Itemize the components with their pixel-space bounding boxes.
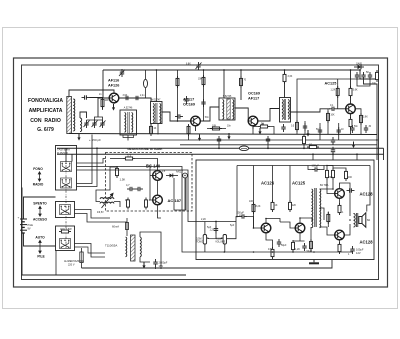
svg-text:CON RADIO: CON RADIO (30, 118, 61, 124)
svg-text:REGOLATORE di TEMP.: REGOLATORE di TEMP. (127, 147, 162, 151)
wire radio 2 (77, 148, 98, 186)
wire agc (297, 79, 360, 112)
resistor R10 3,3 (123, 157, 135, 160)
label values radio (99, 63, 372, 131)
switch S2 (61, 178, 72, 188)
capacitor C27 (281, 124, 285, 132)
svg-text:10K: 10K (331, 115, 336, 117)
tastiera box (56, 146, 77, 191)
junction dots rails (96, 139, 378, 155)
ground Q3 (258, 128, 261, 135)
wire Q7 emitter (266, 233, 273, 248)
svg-text:PILE: PILE (37, 255, 45, 259)
resistor R14 40ohm (59, 230, 71, 233)
ground arrow rail (352, 142, 355, 149)
junction dots rail (156, 69, 361, 71)
electrolytic C4 (144, 70, 148, 98)
resistor R23 (338, 203, 341, 215)
wire motor leads (96, 167, 118, 202)
capacitor C11 (331, 137, 335, 145)
svg-text:4/9,5V: 4/9,5V (97, 212, 104, 214)
capacitor C14 2000uF (153, 259, 157, 267)
svg-text:FONOVALIGIA: FONOVALIGIA (28, 98, 63, 104)
transistor Q7 AC126 (261, 223, 271, 233)
wire R31 (310, 227, 312, 252)
ground Q1 emitter (112, 104, 115, 111)
trimmer CV3 (100, 120, 104, 128)
wire R16 top (272, 166, 274, 203)
wire Q10 out (344, 224, 350, 235)
svg-text:AF116: AF116 (108, 79, 119, 83)
switch S4 (60, 239, 71, 249)
svg-text:3,3K: 3,3K (288, 76, 293, 78)
transistor Q3 OC169/AF117 (248, 116, 258, 126)
wire secondary (140, 232, 161, 269)
svg-text:AC125: AC125 (292, 181, 306, 186)
pot P2 volume (221, 235, 227, 253)
wire Q1 base (98, 98, 109, 117)
wire T6 center tap (320, 208, 325, 220)
switch S3 (60, 205, 71, 215)
amplifier enclosure (196, 160, 374, 260)
resistor R12 (127, 198, 130, 210)
transistor Q8 AC125 (295, 223, 305, 233)
IF transformer T2 (151, 102, 163, 124)
wire drops to amp (312, 154, 314, 160)
wire R30 (296, 112, 298, 135)
svg-text:4,7: 4,7 (126, 183, 130, 187)
diode D2 (166, 174, 178, 178)
wire tuning bus (87, 117, 103, 120)
capacitor C8 (368, 72, 372, 80)
antenna coil L2 (80, 118, 82, 132)
resistor R15 (252, 202, 255, 214)
wire Q10 collector (339, 240, 341, 252)
fuse 60mA (126, 223, 129, 230)
wire mid vertical drops (150, 124, 152, 135)
transistor Q5 BC140 (153, 171, 163, 181)
trimmer on rail 2 (196, 62, 200, 70)
resistor R22 (345, 169, 348, 181)
svg-text:+ 150 pF: + 150 pF (89, 138, 101, 142)
resistor R11 (116, 166, 119, 178)
svg-text:1K: 1K (154, 128, 157, 130)
svg-text:OC169: OC169 (183, 103, 195, 107)
wire Q9 emitter (339, 198, 341, 204)
svg-text:6V: 6V (239, 214, 242, 218)
capacitor C25 coupling (329, 107, 337, 111)
trimmer CV1 (84, 120, 88, 128)
capacitor C21 100uF (350, 246, 354, 254)
wire T6 sec to Q10 (320, 227, 335, 235)
regulator enclosure (dashed) (106, 153, 193, 212)
resistor R26 bias (336, 86, 339, 98)
svg-text:FONO: FONO (33, 167, 43, 171)
lamp LP1 (239, 146, 248, 151)
resistor R35 (176, 76, 179, 88)
capacitor 150pF (82, 95, 90, 99)
resistor R32 Q2 emitter (187, 124, 190, 136)
wire rail 1 (57, 147, 384, 149)
capacitor C18 (277, 239, 281, 247)
capacitor C30 (318, 127, 322, 135)
transistor Q10 AC128 (335, 230, 345, 240)
svg-text:A 52746: A 52746 (124, 107, 133, 110)
svg-text:40Ω 7,5W: 40Ω 7,5W (60, 227, 72, 231)
svg-text:50μF: 50μF (307, 250, 313, 253)
chassis ground amp (309, 260, 319, 265)
svg-text:OC169: OC169 (248, 92, 260, 96)
svg-text:5μF: 5μF (230, 224, 235, 227)
wire Q1 emitter (113, 103, 115, 104)
resistor R2 (150, 124, 153, 136)
svg-text:1K: 1K (275, 204, 278, 207)
wire detector net (360, 70, 377, 79)
trimmer on rail (120, 69, 124, 77)
wire R4 (240, 70, 242, 100)
wire battery top (24, 197, 56, 219)
svg-text:R.05/316: R.05/316 (57, 151, 68, 155)
wire radio pickup (77, 135, 93, 184)
transistor Q1 AF116/AF126 (109, 93, 119, 103)
svg-text:5K: 5K (261, 123, 264, 126)
svg-text:1,2K: 1,2K (331, 90, 336, 92)
transistor Q9 AC128 (335, 189, 345, 199)
wire Q4 emitter (350, 114, 352, 118)
svg-text:+: + (18, 216, 20, 220)
ferrite rod antenna (67, 97, 72, 134)
jack J1 (183, 173, 188, 178)
battery B1 9V (20, 219, 27, 233)
wire Q2 collector to T3 (200, 107, 219, 121)
wire R29 (355, 109, 361, 135)
wire right drop (367, 166, 370, 212)
wire L2 top (80, 112, 87, 118)
schematic outer frame (14, 58, 388, 287)
capacitor C23 (350, 125, 354, 133)
wire radio bottom rail (69, 134, 377, 135)
wire Q9 out (340, 183, 351, 216)
wire cap250 to Q7 base (247, 217, 261, 229)
wire Q3 emitter (252, 126, 254, 129)
svg-text:2,2n: 2,2n (140, 95, 145, 97)
wire R17 C18 bottom (273, 247, 280, 259)
svg-text:5,6K: 5,6K (353, 90, 358, 92)
wire reg top (110, 158, 123, 160)
capacitor C32 (347, 188, 355, 192)
wire top supply rail (103, 69, 360, 71)
svg-text:B2 TRA: B2 TRA (320, 184, 329, 187)
wire Q4 collector (350, 70, 352, 104)
svg-text:TASTIERA: TASTIERA (57, 148, 70, 152)
svg-text:AC128: AC128 (360, 192, 374, 197)
capacitor C22 under rail (331, 147, 335, 155)
resistor R31 (310, 239, 313, 251)
resistor R17 (271, 247, 274, 259)
svg-text:6,8K: 6,8K (186, 64, 191, 66)
wire T6 sec to Q9 (320, 189, 335, 194)
label values reg (97, 171, 183, 215)
wire R26 (337, 79, 339, 109)
arrow spento/acceso (39, 206, 41, 216)
wire antenna top link (69, 90, 114, 97)
wire Q8 emitter (293, 233, 305, 241)
transistor Q6 AC187 (153, 195, 163, 205)
svg-text:12K: 12K (292, 204, 297, 207)
capacitor C9 (217, 136, 221, 144)
resistor R3 (202, 75, 205, 87)
wire power box outline (22, 188, 186, 276)
capacitor C4c on collector (123, 96, 131, 100)
resistor R4 (240, 76, 243, 88)
mains transformer T5 (126, 235, 142, 261)
wire reg to supply (158, 211, 162, 218)
ground T4 (306, 130, 309, 137)
svg-text:3,9K: 3,9K (123, 95, 128, 97)
resistor R36 (327, 212, 330, 224)
svg-text:15V: 15V (159, 264, 164, 268)
resistor R25 on rail (307, 146, 319, 149)
wire amp bottom rail (206, 251, 353, 253)
resistor R27 collector (349, 86, 352, 98)
wire radio bottom rail 2 (150, 139, 377, 141)
wire reg internal 1 (150, 175, 153, 177)
motor M (100, 193, 114, 208)
arrow fono/radio (38, 172, 40, 181)
svg-text:3Ω: 3Ω (309, 144, 312, 147)
speaker SP (359, 213, 371, 227)
wire T4 top (284, 70, 286, 98)
fuse F1 (80, 248, 83, 268)
capacitor C12 (127, 187, 135, 191)
svg-text:8Ω: 8Ω (367, 219, 370, 222)
wire R3 (203, 70, 205, 121)
wire radio bottom rail 3 (180, 144, 377, 146)
wire bottom power rail (82, 260, 333, 268)
wire wiper bus (209, 238, 221, 240)
svg-text:SPENTO: SPENTO (33, 202, 47, 206)
svg-text:5K: 5K (366, 71, 369, 74)
svg-text:AF117: AF117 (248, 97, 259, 101)
switch S1 (61, 162, 72, 172)
capacitor C28 (201, 99, 205, 107)
wire Q1 collector (119, 98, 151, 101)
capacitor C19 (302, 243, 306, 251)
resistor R24 (338, 242, 341, 254)
junction dots amp (236, 165, 351, 229)
resistor R19 (292, 240, 295, 252)
wire Q7 collector (266, 219, 280, 224)
capacitor C17 250uF (239, 214, 247, 218)
capacitor C4d on collector (133, 96, 141, 100)
capacitor C31 (337, 127, 341, 135)
antenna coil L1 (73, 99, 75, 131)
svg-text:1,5K: 1,5K (120, 178, 126, 182)
schematic inner frame (22, 65, 379, 280)
wire amp top rail (237, 165, 370, 167)
capacitor C16 (214, 226, 218, 234)
capacitor C24 (364, 125, 368, 133)
wire battery bottom (24, 233, 56, 246)
capacitor C8b (355, 72, 359, 80)
svg-text:AF126: AF126 (108, 84, 119, 88)
svg-text:BC 140: BC 140 (146, 164, 161, 169)
wire tastiera to rails (65, 148, 67, 161)
wire fono to amp input (77, 170, 197, 222)
svg-text:TONO: TONO (196, 241, 203, 244)
svg-text:220: 220 (329, 176, 334, 179)
svg-text:ACCESO: ACCESO (33, 218, 48, 222)
ground antenna (77, 134, 80, 141)
wire Q2 emitter down (195, 126, 197, 131)
capacitor C7 (361, 72, 365, 80)
IF transformer T4 (280, 98, 291, 123)
junction dots bottom rail (224, 251, 315, 253)
svg-text:RADIO: RADIO (33, 183, 44, 187)
svg-text:AC 187: AC 187 (168, 198, 182, 203)
svg-text:3,3: 3,3 (127, 154, 131, 158)
capacitor C20 100uF top (312, 167, 320, 171)
wire volume to cap250 (227, 217, 240, 239)
wire Q8 base (280, 222, 295, 228)
resistor R16 (271, 200, 274, 212)
svg-text:12V: 12V (356, 251, 361, 255)
capacitor C26 (303, 123, 307, 131)
wire R28 (327, 109, 329, 135)
pot P1 tone (203, 222, 209, 253)
svg-text:9V: 9V (28, 227, 31, 230)
resistor R13 (145, 198, 148, 210)
resistor R28 (327, 111, 330, 123)
ground Q2 (198, 135, 201, 142)
resistor R5 (283, 72, 286, 84)
svg-text:2,2K: 2,2K (201, 218, 206, 221)
resistor R30 (296, 120, 299, 132)
svg-text:AUTO: AUTO (35, 236, 45, 240)
capacitor C10 (266, 136, 270, 144)
wire fono 2 (77, 167, 207, 253)
resistor R1 (101, 97, 104, 109)
resistor R20 (326, 168, 329, 180)
svg-text:3,9K: 3,9K (363, 117, 368, 119)
transistor Q2 AF117/OC169 (191, 116, 201, 126)
switch box 2 (56, 202, 75, 218)
svg-text:T110/55A: T110/55A (105, 244, 117, 248)
wire amp input fono (196, 221, 236, 223)
wire reg right (174, 178, 186, 210)
resistor R33 interstage (210, 127, 222, 130)
svg-text:10K: 10K (249, 200, 254, 203)
svg-text:10K: 10K (105, 100, 110, 102)
resistor R34 Q3 emitter (258, 125, 270, 128)
svg-text:8,2K: 8,2K (256, 205, 261, 208)
resistor R7 (349, 117, 352, 129)
resistor R21 (332, 168, 335, 180)
IF transformer T3 (219, 98, 235, 120)
wire rail1 drop right (383, 148, 385, 160)
resistor R9 (303, 134, 306, 146)
switch box 3 (56, 226, 75, 251)
svg-text:G. 6/79: G. 6/79 (37, 127, 54, 133)
label amp values (207, 176, 352, 256)
svg-text:470: 470 (268, 248, 273, 251)
switch mechanical link (65, 160, 67, 248)
wire reg internal 2 (157, 180, 159, 195)
arrow auto/pile (39, 240, 41, 253)
svg-text:10n: 10n (372, 82, 377, 85)
svg-text:100μF: 100μF (312, 164, 320, 168)
driver transformer T6 (312, 188, 321, 228)
wire T2 to Q2 (162, 112, 191, 121)
wire T4 to Q4 (291, 109, 331, 112)
svg-text:AC125: AC125 (325, 82, 337, 86)
svg-text:100: 100 (348, 176, 353, 179)
wire R18 top (289, 166, 291, 203)
wire Q8 collector (300, 218, 312, 223)
svg-text:1,2K: 1,2K (295, 248, 300, 251)
wire bias top (327, 166, 346, 170)
capacitor C13 (135, 187, 143, 191)
wire T3 to Q3 (235, 108, 248, 121)
wire det bottom (364, 80, 378, 160)
svg-text:OA85: OA85 (356, 63, 363, 66)
wire Q3 collector to T4 (258, 109, 280, 122)
resistor R29 (360, 113, 363, 125)
transistor Q4 AC125 (346, 104, 356, 114)
oscillator transformer T1 (120, 110, 137, 135)
wire R15 (253, 166, 255, 229)
svg-text:10K: 10K (212, 125, 217, 128)
title text block (28, 98, 63, 133)
output transformer T7 (354, 213, 358, 227)
wire C25 to base (337, 108, 346, 110)
wire det mid (357, 80, 370, 86)
ground arrow mid (227, 133, 230, 140)
svg-text:50μF: 50μF (281, 244, 287, 247)
capacitor C29 (184, 96, 188, 104)
wire rail 2 (57, 153, 384, 155)
svg-text:220 V: 220 V (68, 263, 75, 266)
wire primary top (126, 218, 128, 236)
wire cap to rail (90, 70, 104, 98)
resistor R18 (289, 200, 292, 212)
diode D1 detector (354, 65, 364, 69)
svg-text:AC128: AC128 (360, 240, 374, 245)
wire drops to rail1 (218, 144, 220, 148)
svg-text:VOLUME: VOLUME (215, 241, 226, 244)
resistor R8 (376, 70, 379, 82)
wire s4 down (55, 251, 57, 276)
wire R7 down (350, 127, 352, 135)
wire T3 top (223, 70, 225, 98)
wire switches to transformer (75, 210, 111, 219)
trimmer CV2 (92, 120, 96, 128)
capacitor C5 (175, 114, 183, 118)
wire to regulator (77, 159, 106, 164)
svg-text:AMPLIFICATA: AMPLIFICATA (29, 108, 63, 114)
ground supply (142, 262, 145, 269)
svg-text:60mA: 60mA (112, 225, 119, 229)
svg-text:5μF: 5μF (207, 226, 212, 229)
